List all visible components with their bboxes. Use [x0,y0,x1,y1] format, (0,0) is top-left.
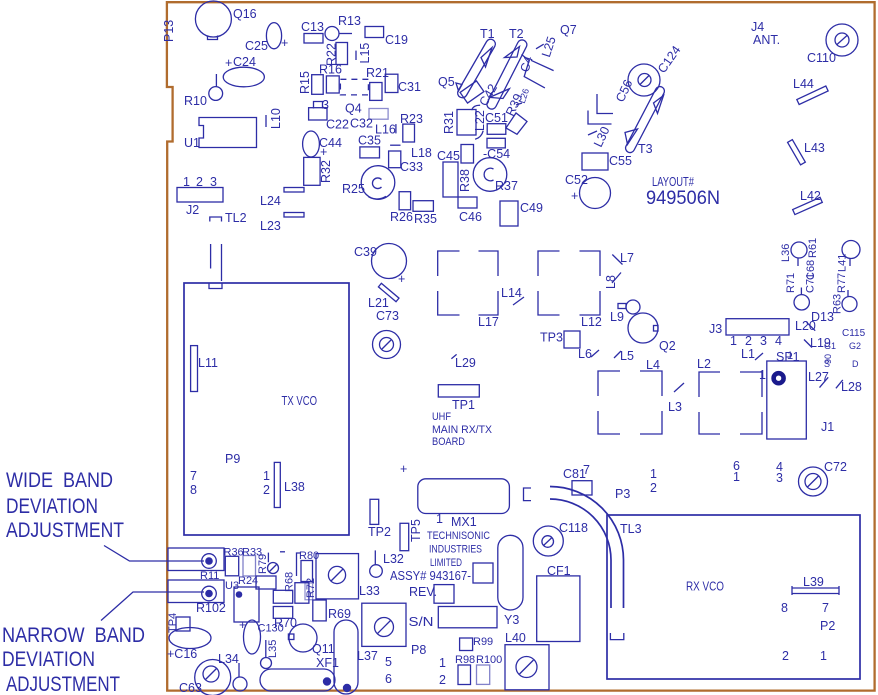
svg-text:Q11: Q11 [312,642,335,656]
dashed outline [340,79,368,95]
capacitor C52 [565,173,611,209]
inductor L2 [697,357,762,434]
inductor L32 [370,550,404,577]
svg-text:R37: R37 [495,179,518,193]
resistor R24 [238,575,276,589]
svg-text:+: + [239,618,246,632]
svg-text:BOARD: BOARD [432,436,465,448]
svg-text:L29: L29 [455,356,476,370]
connector P3 pins [615,459,783,501]
text UHF MAIN RX/TX BOARD [432,411,493,448]
svg-text:R99: R99 [473,636,493,648]
svg-text:L25: L25 [539,35,559,59]
capacitor C13 [301,20,324,43]
svg-text:6: 6 [385,672,392,686]
svg-text:L15: L15 [358,43,372,64]
svg-text:XF1: XF1 [316,656,339,670]
inductor L29 [451,354,476,370]
resistor R13 [325,14,361,41]
resistor R38 [458,145,474,193]
svg-text:LIMITED: LIMITED [430,557,462,569]
resistor R23 [400,112,423,142]
svg-text:J1: J1 [821,420,834,434]
svg-text:U1: U1 [184,136,200,150]
board outline [167,2,875,690]
capacitor C55 [582,153,632,170]
resistor R100 [476,654,502,684]
inductor L11 [191,346,218,392]
test point TP1 [438,385,479,412]
svg-text:1: 1 [650,467,657,481]
svg-text:3: 3 [322,98,329,112]
module RX VCO [607,515,860,679]
svg-text:L17: L17 [478,315,499,329]
resistor R68 [284,572,309,603]
capacitor C44 [303,131,342,159]
label WIDE BAND DEVIATION ADJUSTMENT [6,469,124,542]
svg-text:R32: R32 [319,160,333,183]
svg-text:7: 7 [190,469,197,483]
capacitor C33 [389,151,423,174]
inductor L25 [536,35,559,59]
svg-text:C115: C115 [842,328,866,339]
svg-text:2: 2 [745,334,752,348]
svg-text:C130: C130 [258,623,284,635]
transistor Q2 [628,313,676,353]
inductor L26 [516,87,531,105]
svg-text:TX VCO: TX VCO [282,394,318,408]
svg-text:L28: L28 [841,380,862,394]
wire [221,244,223,281]
inductor L4 [598,358,662,434]
resistor R36 [224,547,244,576]
capacitor C56 [588,78,635,124]
svg-text:P8: P8 [411,643,426,657]
resistor R98 [455,654,475,685]
svg-text:+: + [225,56,232,70]
svg-text:L3: L3 [668,400,682,414]
inductor L9 [610,300,640,324]
svg-text:P3: P3 [615,487,630,501]
svg-text:L33: L33 [359,584,380,598]
svg-text:L1: L1 [741,347,755,361]
svg-text:C63: C63 [179,681,202,695]
bracket [524,488,532,501]
svg-text:TP1: TP1 [452,398,475,412]
resistor R16 [319,63,342,94]
capacitor C19 [365,27,408,48]
svg-text:2: 2 [650,481,657,495]
svg-text:L30: L30 [591,124,613,149]
svg-text:949506N: 949506N [646,187,720,209]
transistor Q11 [288,624,334,656]
svg-text:TP5: TP5 [409,519,423,542]
svg-text:4: 4 [775,334,782,348]
svg-text:8: 8 [781,601,788,615]
inductor L14 [501,286,524,305]
svg-text:G1: G1 [824,341,836,351]
svg-text:R68: R68 [284,572,296,592]
svg-text:1: 1 [759,368,766,382]
svg-text:DEVIATION: DEVIATION [6,495,98,518]
svg-text:MX1: MX1 [451,515,477,529]
svg-text:T2: T2 [509,27,524,41]
svg-text:NARROW BAND: NARROW BAND [2,624,145,647]
svg-text:R10: R10 [184,94,207,108]
svg-text:7: 7 [583,463,590,477]
svg-text:L21: L21 [368,296,389,310]
inductor L7 [612,251,634,265]
svg-text:L35: L35 [267,640,279,658]
transistor T2 [485,27,528,111]
trimmer L40 [505,631,549,690]
svg-text:L5: L5 [620,349,634,363]
svg-text:L12: L12 [581,315,602,329]
svg-text:C39: C39 [354,245,377,259]
crystal filter XF1 [260,656,339,691]
svg-text:G2: G2 [849,341,861,351]
svg-text:-C54: -C54 [483,147,510,161]
capacitor C54 [483,138,510,161]
svg-text:L4: L4 [646,358,660,372]
capacitor C46 [458,197,482,224]
svg-text:R25: R25 [342,182,365,196]
svg-text:L40: L40 [505,631,526,645]
inductor L38 [274,462,305,507]
svg-text:T1: T1 [480,27,495,41]
capacitor C49 [500,201,543,226]
inductor L23 [260,213,304,234]
mixer MX1 [418,479,510,529]
transistor T3 [624,85,666,156]
svg-text:R61: R61 [807,238,819,258]
inductor L15 [356,43,372,64]
svg-text:REV.: REV. [409,585,437,599]
svg-text:L9: L9 [610,310,624,324]
trimmer C110 [807,24,858,65]
svg-text:5: 5 [385,655,392,669]
capacitor C32 [350,109,388,131]
svg-text:R38: R38 [458,169,472,192]
IC U1 [184,118,257,151]
inductor L28 [836,380,862,394]
svg-text:C55: C55 [609,154,632,168]
test loop TL2 [210,211,247,225]
inductor L10 [266,108,283,129]
svg-text:TP3: TP3 [540,331,563,345]
resistor R11 [168,548,224,582]
svg-text:S: S [824,359,830,369]
svg-text:R102: R102 [196,601,226,615]
inductor L19 [804,336,831,350]
svg-text:RX VCO: RX VCO [686,580,724,594]
svg-text:R71: R71 [785,273,797,293]
svg-text:+: + [571,189,578,203]
resistor R32 [304,157,333,185]
svg-text:+: + [281,36,288,50]
svg-text:3: 3 [760,334,767,348]
svg-text:L38: L38 [284,480,305,494]
inductor L44 [793,77,828,105]
svg-text:Y3: Y3 [504,613,519,627]
svg-text:L37: L37 [357,649,378,663]
svg-text:L8: L8 [604,275,618,289]
connector J4 ANT. [751,20,780,47]
capacitor C51 [485,111,508,134]
wire pointer to R102 [101,592,204,621]
capacitor C81 [563,463,592,495]
inductor L6 [578,347,599,361]
svg-text:L43: L43 [804,141,825,155]
capacitor C45 [437,149,460,197]
connector J2 [177,175,223,217]
resistor R80 [297,550,320,582]
svg-text:TP2: TP2 [368,525,391,539]
inductor L21 [368,283,399,310]
svg-text:L20: L20 [795,319,816,333]
inductor L39 [792,575,839,595]
trimmer C118 [533,521,588,556]
inductor L8 [604,273,621,290]
assy square [473,563,493,583]
connector P9 [190,452,270,497]
svg-text:C19: C19 [385,33,408,47]
connector J3 [709,319,789,348]
svg-text:C13: C13 [301,20,324,34]
svg-text:R23: R23 [400,112,423,126]
resistor R26 [390,192,413,224]
inductor R25 [342,166,395,200]
wire to TX VCO [210,244,212,269]
svg-text:D: D [852,359,859,369]
trimmer C63 [179,660,231,695]
capacitor C39 [354,244,407,287]
capacitor C31 [385,74,421,94]
svg-text:R98: R98 [455,654,475,666]
trimmer C73 [373,309,401,359]
svg-text:C46: C46 [459,210,482,224]
resistor R31 [442,110,476,136]
connector pins 1 2 [439,656,446,687]
svg-text:P2: P2 [820,619,835,633]
svg-text:8: 8 [190,483,197,497]
svg-text:Q2: Q2 [659,339,676,353]
resistor R71 [785,273,809,310]
svg-text:C52: C52 [565,173,588,187]
svg-text:C45: C45 [437,149,460,163]
crystal Y3 [498,535,523,627]
svg-text:S/N: S/N [409,615,434,629]
serial box [438,607,497,628]
capacitor C35 [358,134,381,158]
svg-text:C124: C124 [655,43,684,76]
resistor R77 [836,273,857,312]
IC U3 [225,580,259,622]
svg-text:J3: J3 [709,322,722,336]
svg-text:INDUSTRIES: INDUSTRIES [429,544,482,556]
inductor L22 [472,105,487,139]
capacitor C25 [245,23,288,53]
svg-text:R15: R15 [298,71,312,94]
svg-text:2: 2 [782,649,789,663]
svg-text:C31: C31 [398,80,421,94]
inductor L27 [808,370,829,388]
test point TP5 [400,519,423,551]
svg-text:Q7: Q7 [560,23,577,37]
svg-text:1: 1 [436,512,443,526]
svg-text:+: + [398,272,405,286]
speaker connector SP1 [759,350,806,439]
svg-text:L32: L32 [383,552,404,566]
capacitor C130 [239,618,284,654]
resistor R99 [460,636,494,651]
svg-text:ADJUSTMENT: ADJUSTMENT [6,519,124,542]
svg-text:R100: R100 [476,654,502,666]
svg-text:TL3: TL3 [620,522,642,536]
capacitor C24 [223,55,264,87]
resistor R69 [313,600,351,621]
inductor L36 [780,242,807,266]
svg-text:C118: C118 [559,521,588,535]
svg-text:R24: R24 [238,575,258,587]
inductor L35 [261,640,280,669]
transistor Q16 [195,1,256,40]
svg-text:C32: C32 [350,117,373,131]
svg-text:Q16: Q16 [233,7,257,21]
svg-text:J4: J4 [751,20,764,34]
svg-text:TECHNISONIC: TECHNISONIC [427,530,490,542]
svg-text:R80: R80 [299,550,319,562]
svg-text:7: 7 [822,601,829,615]
capacitor C16 [167,628,211,662]
svg-text:1: 1 [730,334,737,348]
svg-text:R31: R31 [442,111,456,134]
svg-text:ANT.: ANT. [753,33,780,47]
resistor R70 [273,590,297,630]
inductor L17 [438,251,499,329]
inductor L37 [334,620,378,694]
svg-text:2: 2 [263,483,270,497]
inductor L24 [260,188,304,209]
inductor L30 [588,124,613,149]
svg-text:C22: C22 [326,118,349,132]
capacitor C47 [518,54,554,88]
svg-text:R72: R72 [305,578,317,598]
inductor L1 [741,347,763,361]
resistor R15 [298,71,323,94]
svg-text:C71: C71 [805,273,817,293]
svg-text:WIDE BAND: WIDE BAND [6,469,113,492]
svg-text:U3: U3 [225,580,239,592]
svg-text:R77: R77 [836,273,848,293]
test point TP4 [167,613,190,633]
svg-text:ADJUSTMENT: ADJUSTMENT [6,673,120,695]
svg-text:Q5: Q5 [438,75,455,89]
connector P2 [781,601,835,663]
svg-text:C110: C110 [807,51,836,65]
svg-text:L44: L44 [793,77,814,91]
svg-text:L7: L7 [620,251,634,265]
test point TP3 [540,331,580,349]
capacitor C22 [309,108,349,132]
svg-text:L14: L14 [501,286,522,300]
svg-text:1: 1 [787,350,793,362]
inductor R37 [473,158,518,193]
svg-text:L23: L23 [260,219,281,233]
svg-text:L42: L42 [800,189,821,203]
svg-text:T3: T3 [638,142,653,156]
trimmer C72 [799,460,847,496]
svg-text:L18: L18 [411,146,432,160]
resistor R102 [168,580,226,615]
svg-text:DEVIATION: DEVIATION [2,648,95,671]
svg-text:P9: P9 [225,452,240,466]
test point TP2 [368,499,391,539]
svg-text:+: + [400,462,407,476]
diode D13 [807,310,834,331]
svg-text:L10: L10 [269,108,283,129]
resistor R33 [242,547,262,577]
svg-text:2: 2 [439,673,446,687]
svg-text:R13: R13 [338,14,361,28]
inductor L41 [837,241,861,273]
svg-text:R69: R69 [328,607,351,621]
svg-text:MAIN RX/TX: MAIN RX/TX [432,424,493,436]
svg-text:3: 3 [776,471,783,485]
svg-text:L2: L2 [697,357,711,371]
svg-text:UHF: UHF [432,411,451,423]
inductor L13 [314,98,330,112]
inductor L12 [538,251,602,329]
svg-text:+C16: +C16 [167,647,197,661]
inductor L3 [668,383,684,414]
svg-text:1: 1 [820,649,827,663]
trimmer R79 [257,552,285,574]
inductor L5 [614,349,634,363]
svg-text:R26: R26 [390,210,413,224]
trimmer L33 [316,554,380,599]
svg-text:C35: C35 [358,134,381,148]
transistor Q5 [438,75,484,103]
svg-text:J2: J2 [186,203,199,217]
svg-text:1: 1 [263,469,270,483]
svg-text:R35: R35 [414,212,437,226]
inductor L18 [390,145,432,160]
resistor R10 [184,74,223,108]
resistor R21 [366,66,389,100]
resistor R22 [325,43,348,67]
rev square [434,585,454,604]
svg-text:1: 1 [733,470,740,484]
svg-text:R16: R16 [319,63,342,77]
trimmer C124 [628,43,684,96]
resistor R72 [305,583,313,600]
module TX VCO [184,283,349,535]
svg-text:P13: P13 [162,20,176,42]
svg-text:C24: C24 [233,55,256,69]
svg-text:+: + [320,145,327,159]
svg-text:L11: L11 [198,356,218,370]
trimmer P8 [362,603,427,686]
filter CF1 [537,564,580,642]
text TECHNISONIC INDUSTRIES LIMITED [427,530,490,569]
resistor R35 [413,201,437,226]
resistor R39 [503,92,527,135]
label NARROW BAND DEVIATION ADJUSTMENT [2,624,145,695]
inductor L34 [218,652,247,691]
transmission line TL3 [550,487,642,640]
svg-text:L36: L36 [780,244,792,262]
